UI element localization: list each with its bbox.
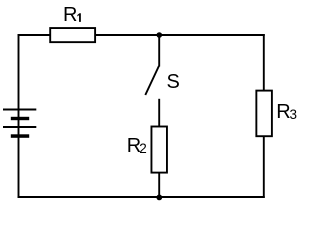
node junction bottom bbox=[156, 195, 162, 201]
switch S blade (open, angled down-left) bbox=[145, 66, 159, 95]
wire bottom bbox=[18, 196, 265, 198]
node junction top bbox=[157, 32, 163, 38]
wire middle branch upper (top node to switch pivot) bbox=[158, 35, 160, 67]
svg-text:S: S bbox=[167, 71, 180, 93]
resistor R3 bbox=[256, 91, 272, 137]
label R1 subscript 1 bbox=[77, 13, 81, 22]
battery B1 long thin plate (bottom cell positive) bbox=[3, 126, 36, 128]
wire left side (through battery) bbox=[18, 34, 20, 198]
battery B1 long thin plate (top cell positive) bbox=[3, 109, 36, 111]
wire right lower segment (R3 to bottom corner) bbox=[263, 136, 265, 198]
wire right upper segment (corner to R3) bbox=[263, 34, 265, 91]
resistor R1 bbox=[50, 28, 95, 42]
wire top-left segment (left corner to R1) bbox=[18, 34, 51, 36]
battery B1 short thick plate (bottom cell negative) bbox=[11, 134, 29, 138]
wire top-right segment (R1 to top-right corner) bbox=[95, 34, 265, 36]
wire middle branch middle (switch contact to R2 top) bbox=[158, 99, 160, 127]
battery B1 short thick plate (top cell negative) bbox=[11, 117, 29, 120]
wire middle branch lower (R2 bottom to bottom node) bbox=[158, 172, 160, 197]
svg-text:R: R bbox=[63, 4, 77, 26]
resistor R2 bbox=[151, 127, 167, 173]
